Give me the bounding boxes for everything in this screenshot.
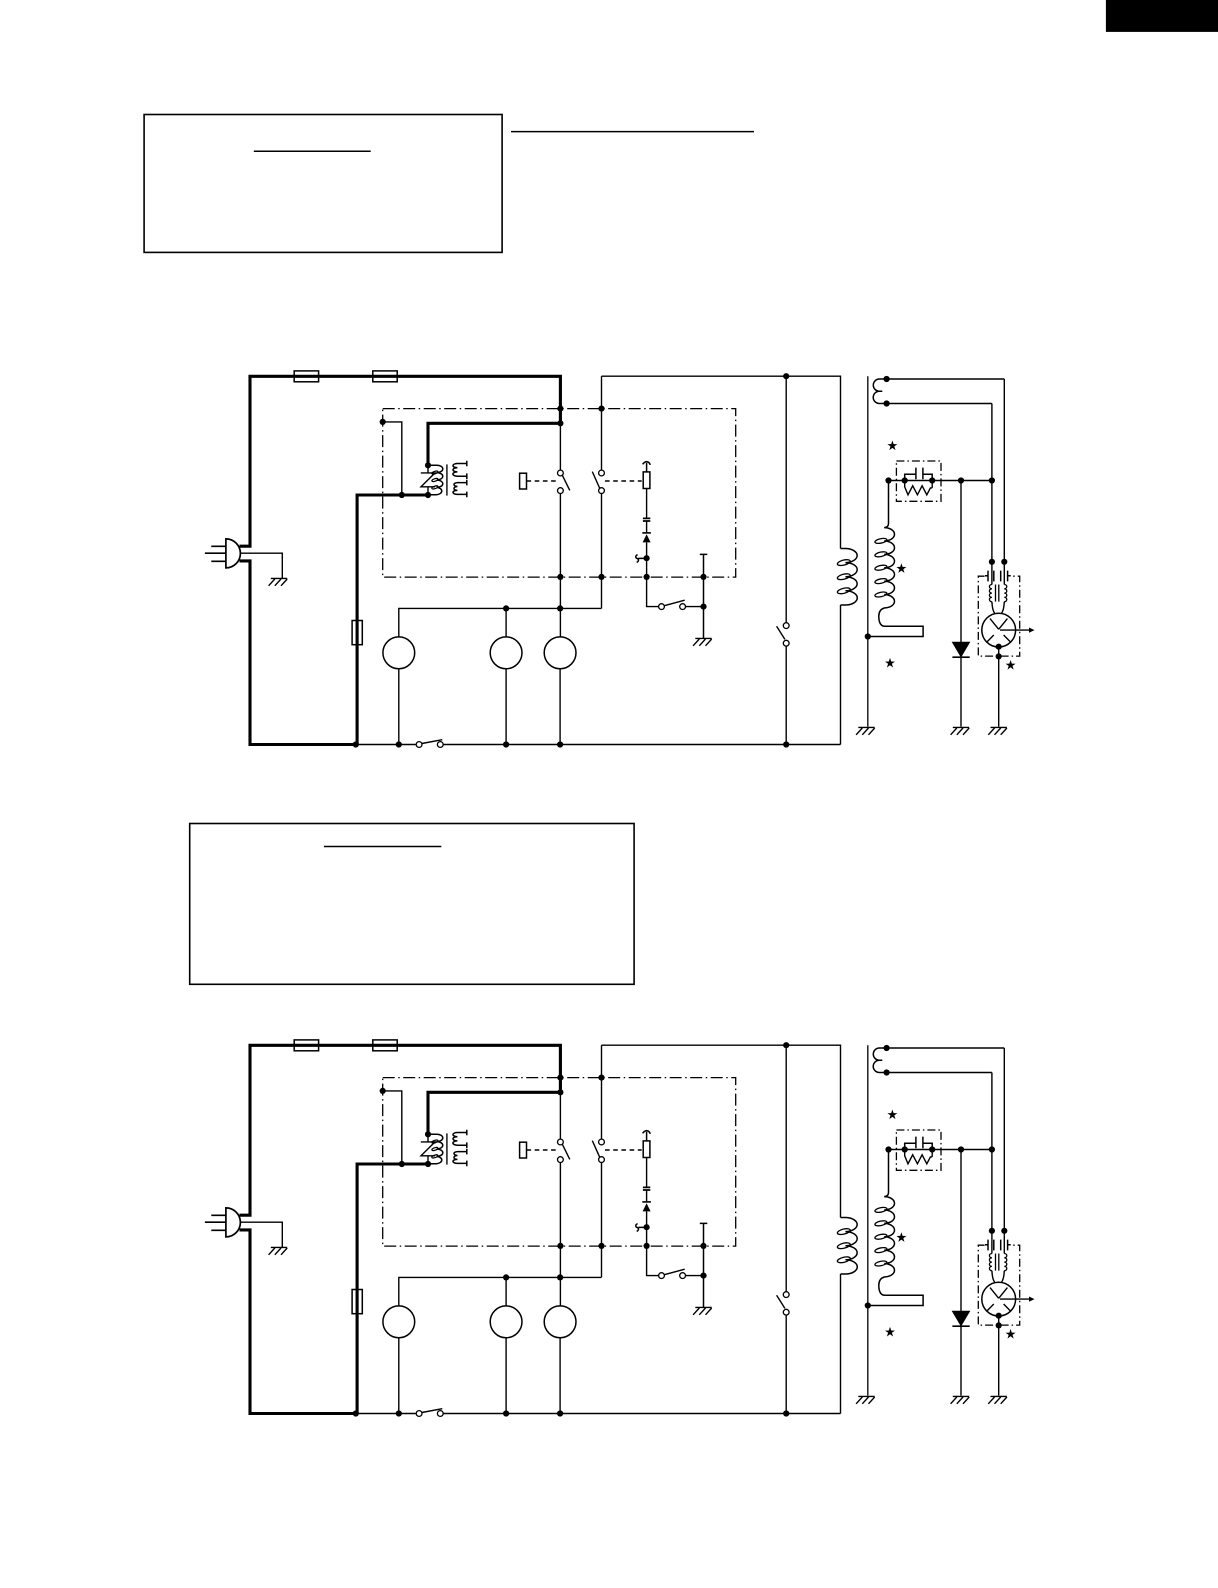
LV transformer secondary lower winding [453,1152,467,1164]
control unit enclosure (dash-dot) [383,409,736,577]
relay contact S1 [558,470,564,476]
magnetron tube [982,613,1016,647]
fuse F2 [373,371,397,382]
star marks [885,1110,1016,1339]
magnetron tube [982,1282,1016,1316]
antenna output arrow [1000,629,1030,631]
LV transformer thermal cutout [421,465,435,495]
LV transformer secondary lower winding [453,483,467,495]
fuse F1 [294,371,318,382]
filament winding [873,379,886,404]
door interlock switch [416,742,422,748]
filament tap F [887,1072,992,1074]
magnetron enclosure (dash-dot) [978,1245,1019,1325]
note box 2 [190,824,634,985]
fuse resistor FE [643,472,650,489]
relay contact S1 wire [559,1094,561,1306]
HV diode wire [960,1150,962,1396]
fuse F3 [352,1290,362,1314]
magnetron filament leads [992,379,1004,585]
LV transformer core [446,464,448,495]
LV transformer primary coil [428,465,443,494]
filament tap FA [887,1047,1005,1049]
chassis ground (magnetron) [988,727,1007,734]
connector hook top [643,462,651,472]
chassis ground (magnetron) [988,1396,1007,1403]
neutral wire (thick) [240,1230,356,1414]
fuse F2 [373,1040,397,1051]
HV transformer primary coil [841,549,858,605]
HV transformer primary return [840,605,842,745]
control unit enclosure (dash-dot) [383,1078,736,1247]
door interlock switch [416,1411,422,1417]
terminal bar [700,1223,708,1307]
LV transformer primary coil [428,1134,443,1164]
magnetron filament coils [989,585,992,602]
relay linkage (dashed) [527,480,557,482]
feedthrough capacitor right [1001,1240,1011,1251]
feedthrough capacitor right [1001,571,1011,582]
note box 2 underline [324,846,441,848]
motor feed line [399,608,602,637]
filament winding [873,1048,886,1073]
oven feed line [602,1045,841,1217]
LV transformer core [446,1133,448,1164]
antenna output arrow [1000,1298,1030,1300]
LV transformer thermal cutout [421,1134,435,1164]
terminal bar [700,554,708,638]
filament tap FA [887,378,1005,380]
HV secondary winding [868,1150,923,1306]
turntable motor [505,608,507,637]
connector bars [643,1187,650,1190]
HV transformer primary return [840,1274,842,1414]
schematic 1 [205,371,1035,748]
neutral wire (thick) [240,561,356,745]
schematic 2 [205,1040,1035,1417]
thermal cutout wire [647,1211,659,1275]
HV diode [953,642,970,656]
door monitor switch wire [785,1045,787,1413]
thermal cutout switch [659,604,665,610]
transformer feed wire (thick) [357,495,428,745]
fuse resistor FE [643,1141,650,1158]
transformer feed wire (thick) [357,1164,428,1414]
magnetron cathode return [998,647,1000,727]
relay coil [520,473,527,489]
fan motor [383,637,415,669]
fuse F3 [352,621,362,645]
feedthrough capacitor left [985,571,994,582]
HV transformer core line [867,376,869,726]
relay contact S2 wire [601,1045,603,1277]
HV capacitor enclosure (dash-dot) [896,1130,941,1170]
header rule line [511,131,754,133]
door monitor switch wire [785,376,787,744]
chassis ground (thermal) [693,638,712,645]
relay contact S2 [599,470,605,476]
star marks [885,441,1016,670]
motor feed line [399,1277,602,1306]
chassis ground (core) [856,1396,875,1403]
HV diode wire [960,481,962,727]
bleeder resistor [905,481,933,495]
junction dots [353,1042,1008,1417]
relay contact S2 wire [601,376,603,608]
feedthrough capacitor left [985,1240,994,1251]
connector hook top [643,1131,651,1141]
fuse F1 [294,1040,318,1051]
HV transformer core line [867,1045,869,1395]
oven lamp [544,637,576,669]
header black block [1106,0,1218,32]
LV transformer secondary upper winding [453,1133,467,1146]
bottom neutral bus [356,744,841,746]
chassis ground at plug [269,578,288,585]
HV node line [889,1149,992,1151]
connector hook left [636,555,644,563]
chassis ground (thermal) [693,1307,712,1314]
filament tap F [887,403,992,405]
magnetron enclosure (dash-dot) [978,576,1019,656]
HV capacitor [905,468,933,481]
note box 1 underline [254,150,371,152]
protection diode [642,532,651,534]
junction dots [353,373,1008,748]
relay contact S1 [558,1139,564,1145]
oven feed line [602,376,841,548]
thermal cutout switch [659,1273,665,1279]
LV transformer secondary upper winding [453,464,467,477]
magnetron filament coils [989,1254,992,1271]
wire from enclosure edge to neutral [383,422,402,495]
protection diode [642,1201,651,1203]
chassis ground at plug [269,1247,288,1254]
live wire (thick) [240,376,561,546]
chassis ground (core) [856,727,875,734]
wire from enclosure edge to neutral [383,1091,402,1164]
fan motor [383,1306,415,1338]
earth wire [240,553,282,578]
relay coil [520,1142,527,1158]
AC plug [226,1208,241,1237]
turntable motor [505,1277,507,1306]
chassis ground (diode) [951,1396,970,1403]
live wire (thick) [240,1045,561,1215]
HV transformer primary coil [841,1218,858,1275]
magnetron filament leads [992,1048,1004,1254]
magnetron cathode return [998,1316,1000,1396]
HV secondary winding [868,481,923,637]
connector bars [643,518,650,521]
HV capacitor enclosure (dash-dot) [896,461,941,501]
relay linkage (dashed) [527,1149,557,1151]
HV diode [953,1311,970,1325]
thermal cutout wire [647,542,659,606]
connector hook left [636,1224,644,1232]
door monitor switch [783,623,789,629]
chassis ground (diode) [951,727,970,734]
door monitor switch [783,1292,789,1298]
earth wire [240,1222,282,1247]
bottom neutral bus [356,1413,841,1415]
relay contact S1 wire [559,425,561,637]
AC plug [226,539,241,568]
HV node line [889,480,992,482]
relay contact S2 [599,1139,605,1145]
oven lamp [544,1306,576,1338]
HV capacitor [905,1137,933,1150]
bleeder resistor [905,1150,933,1164]
note box 1 [144,115,502,253]
